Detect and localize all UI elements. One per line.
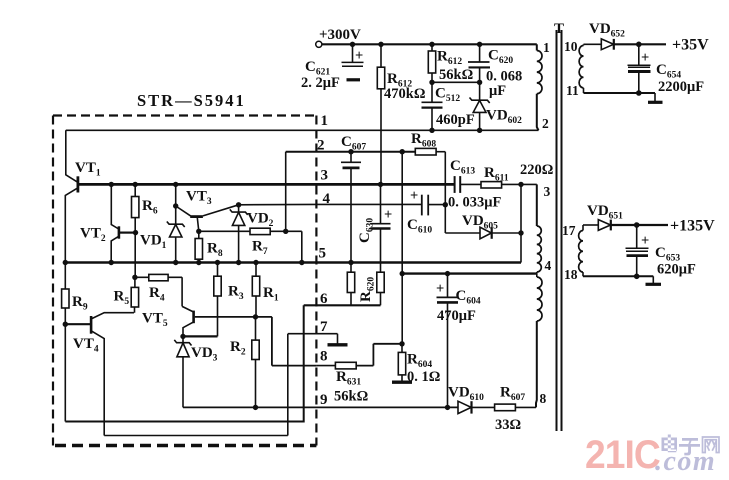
wire bus pin3 (79, 183, 455, 186)
svg-text:+: + (641, 233, 649, 249)
svg-text:1: 1 (321, 113, 329, 129)
svg-text:3: 3 (544, 184, 551, 199)
svg-text:+35V: +35V (672, 37, 709, 54)
svg-text:+: + (355, 48, 363, 64)
wire +35V return (584, 92, 656, 94)
transformer winding 4-8 (536, 274, 547, 408)
svg-text:470kΩ: 470kΩ (384, 86, 425, 102)
svg-text:6: 6 (320, 291, 328, 307)
svg-text:620μF: 620μF (657, 262, 696, 278)
resistor R604 (398, 344, 440, 385)
svg-text:+: + (384, 207, 392, 223)
resistor R620 pair (347, 263, 384, 306)
ground R604 (392, 381, 412, 384)
wire node R612/C620 (432, 81, 480, 83)
transformer T core (554, 21, 564, 431)
diode VD2 zener (230, 205, 274, 263)
resistor R2 (230, 317, 259, 408)
svg-text:220Ω: 220Ω (520, 162, 553, 178)
ground pin7 (328, 334, 348, 345)
transistor VT2 (80, 184, 135, 262)
diode VD1 zener (140, 184, 185, 262)
resistor R612 56k (428, 44, 473, 83)
resistor R608 (411, 131, 445, 155)
resistor R7 (199, 228, 302, 257)
resistor R3 (214, 263, 244, 337)
capacitor C607 (341, 134, 366, 263)
wire pin7 interior path (104, 334, 288, 436)
IC STR-S5941 dashed box (53, 116, 316, 446)
svg-text:21IC: 21IC (585, 433, 660, 478)
svg-text:μF: μF (489, 83, 506, 99)
transistor VT1 (65, 130, 101, 262)
svg-text:1: 1 (543, 40, 550, 55)
diode VD605 (445, 213, 521, 239)
capacitor C620 (468, 44, 522, 99)
wire pin6 net (304, 304, 381, 306)
svg-text:5: 5 (319, 246, 327, 262)
svg-text:+: + (436, 281, 444, 297)
resistor R6 (132, 184, 158, 277)
svg-text:11: 11 (566, 83, 579, 98)
transformer winding 3-4 (537, 184, 552, 274)
wire pin4 net (239, 203, 422, 205)
wire +135V return (583, 275, 653, 277)
svg-text:18: 18 (564, 267, 578, 282)
transistor VT3 (176, 189, 239, 232)
resistor R612 470k (377, 44, 425, 184)
capacitor C630 (357, 184, 392, 272)
capacitor C613 (448, 158, 501, 211)
wire pin6 interior path (65, 305, 303, 421)
svg-text:4: 4 (545, 258, 552, 273)
svg-text:33Ω: 33Ω (495, 417, 521, 433)
svg-text:0. 1Ω: 0. 1Ω (407, 369, 440, 385)
transformer winding 1-2 primary (537, 40, 550, 131)
svg-text:2200μF: 2200μF (658, 79, 704, 95)
dots secondary (634, 42, 642, 280)
svg-text:2: 2 (542, 116, 549, 131)
svg-text:2. 2μF: 2. 2μF (301, 75, 340, 91)
wire pin4-to-transformer line y273.6 (402, 272, 537, 274)
svg-text:T: T (554, 21, 564, 37)
capacitor C512 (422, 82, 475, 130)
svg-text:+: + (410, 188, 418, 204)
ground +35V (648, 93, 663, 102)
diode VD652 (584, 21, 667, 50)
svg-text:+: + (641, 50, 649, 66)
svg-text:7: 7 (320, 319, 328, 335)
diode VD602 zener (470, 82, 523, 130)
svg-text:10: 10 (564, 39, 578, 54)
svg-text:56kΩ: 56kΩ (334, 389, 368, 405)
svg-text:+135V: +135V (670, 218, 715, 235)
capacitor C653 (626, 225, 696, 278)
wire VD605 junction riser (520, 184, 522, 262)
capacitor C610 (407, 188, 445, 236)
transformer winding 17-18 secondary (562, 223, 583, 282)
svg-text:0. 033μF: 0. 033μF (448, 195, 501, 211)
wire +300V rail (322, 43, 537, 45)
svg-text:17: 17 (562, 223, 576, 238)
svg-text:.com: .com (655, 446, 716, 477)
capacitor C621 (301, 44, 364, 91)
svg-text:2: 2 (317, 138, 325, 154)
svg-text:8: 8 (320, 349, 328, 365)
wire pin1 net (66, 129, 539, 131)
wire pin2 net (286, 151, 416, 153)
svg-text:460pF: 460pF (436, 112, 475, 128)
svg-text:4: 4 (323, 191, 331, 207)
svg-text:8: 8 (540, 391, 547, 406)
svg-text:STR—S5941: STR—S5941 (137, 91, 246, 110)
wire pin5 interior bend (301, 231, 303, 262)
transistor VT4 (65, 313, 134, 436)
capacitor C604 (436, 274, 481, 408)
resistor R9 (62, 263, 88, 422)
svg-text:9: 9 (320, 392, 328, 408)
wire pin7 net (288, 333, 338, 335)
diode VD3 zener (174, 336, 217, 407)
resistor R5 (114, 277, 139, 312)
svg-text:3: 3 (321, 168, 329, 184)
diode VD651 (583, 203, 668, 230)
svg-text:470μF: 470μF (437, 308, 476, 324)
resistor R611 (481, 162, 553, 188)
svg-text:+300V: +300V (319, 27, 361, 43)
wire bus pin5 (64, 261, 522, 263)
diode VD610 (448, 385, 495, 414)
resistor R4 (135, 274, 182, 306)
wire R608 to C619/VD605 (444, 152, 446, 233)
resistor R1 (252, 263, 279, 317)
watermark 21IC dianziwang (585, 433, 719, 478)
resistor R631 (316, 344, 402, 405)
node +300V terminal (316, 27, 361, 47)
resistor R607 (495, 385, 536, 434)
ground +135V (646, 276, 662, 284)
wire pin2 column x402 (401, 152, 403, 344)
wire pin2 interior riser (285, 152, 287, 232)
transistor VT5 (142, 306, 272, 336)
svg-text:56kΩ: 56kΩ (439, 67, 473, 83)
resistor R8 (195, 231, 223, 262)
wire pin9 net (183, 406, 458, 408)
wire pin8 interior path (272, 317, 317, 366)
transformer winding 10-11 secondary (564, 39, 584, 98)
wire VT5 emitter jog (183, 335, 218, 337)
capacitor C654 (628, 44, 705, 95)
